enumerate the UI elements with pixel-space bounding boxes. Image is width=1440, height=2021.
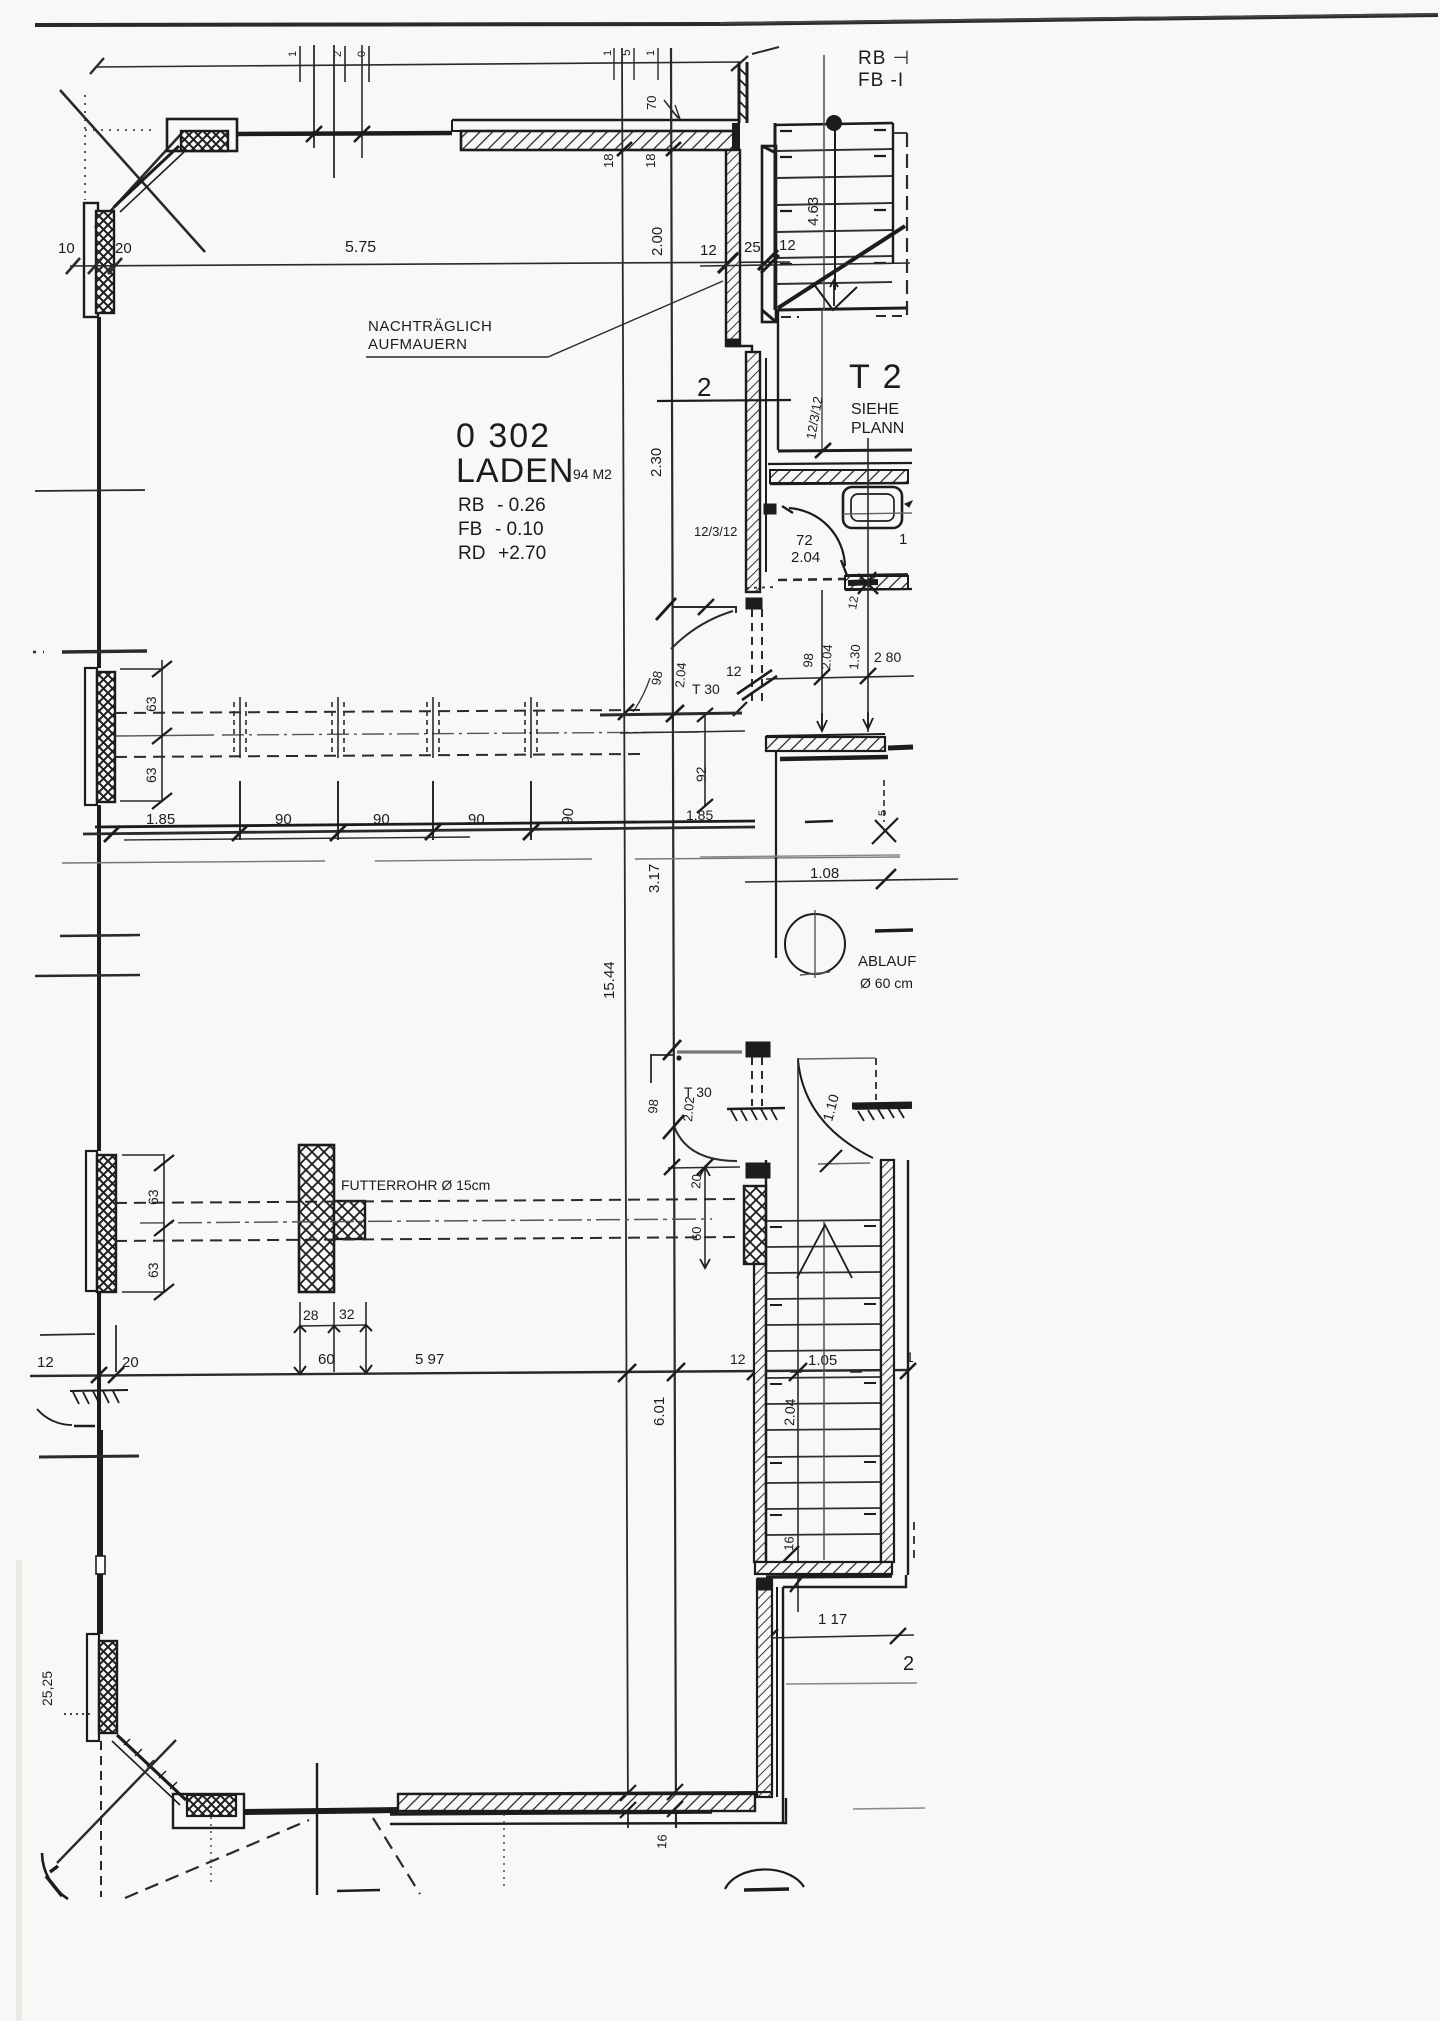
vestibule inner corner lines xyxy=(775,751,777,958)
bottom wall hatched band xyxy=(398,1792,772,1794)
svg-text:98: 98 xyxy=(800,653,816,669)
inner wall leaf upper xyxy=(762,146,776,322)
circle node at stair top xyxy=(826,115,842,131)
top page border line xyxy=(35,15,1438,25)
svg-text:AUFMAUERN: AUFMAUERN xyxy=(368,336,468,353)
long dim line x798 xyxy=(797,1058,799,1612)
dotted construction lines top-left xyxy=(84,95,86,200)
svg-text:T 2: T 2 xyxy=(849,358,904,396)
vertical tick crossing bottom wall x317 xyxy=(316,1763,318,1895)
svg-text:90: 90 xyxy=(468,811,485,828)
dim line y1662 xyxy=(766,1635,914,1638)
small leader stroke top right xyxy=(752,47,779,54)
svg-text:63: 63 xyxy=(143,767,159,783)
centre line lower stairs xyxy=(823,1220,825,1560)
stair second line from circle xyxy=(834,124,836,290)
svg-text:RB - 0.26: RB - 0.26 xyxy=(458,495,546,516)
svg-text:2.04: 2.04 xyxy=(781,1398,798,1426)
svg-text:SIEHE: SIEHE xyxy=(851,401,899,418)
long vertical dimension line A xyxy=(622,48,628,1828)
svg-text:2.30: 2.30 xyxy=(648,448,665,477)
arrow ticks on y833 xyxy=(104,824,539,842)
corridor left wall hatched xyxy=(746,352,760,592)
svg-text:1.05: 1.05 xyxy=(808,1352,837,1369)
window 4 left wall xyxy=(87,1634,99,1741)
arc bottom-left corner xyxy=(42,1853,68,1899)
tick at x626 on dashed sill line xyxy=(618,704,634,720)
svg-text:12: 12 xyxy=(779,237,796,254)
ground hatch below left wall xyxy=(70,1390,128,1391)
ticks across left wall y935 y975 xyxy=(60,935,140,936)
projection lines from top windows xyxy=(314,45,334,178)
centre line through landing xyxy=(821,310,823,452)
dashed door opening below bathroom wall xyxy=(752,609,762,704)
left wall segment 1 xyxy=(97,317,101,668)
upper stair treads xyxy=(776,149,892,284)
right outer wall hatched leaf upper xyxy=(726,150,740,346)
vertical dim line x868 xyxy=(867,438,869,732)
T2 wall double lines xyxy=(778,450,912,451)
svg-text:NACHTRÄGLICH: NACHTRÄGLICH xyxy=(368,318,492,335)
svg-text:Ø 60 cm: Ø 60 cm xyxy=(860,975,913,991)
lower stair right wall hatched xyxy=(881,1160,894,1562)
svg-text:FB -I: FB -I xyxy=(858,70,904,91)
svg-text:60: 60 xyxy=(318,1351,335,1368)
svg-text:60: 60 xyxy=(689,1227,704,1241)
X ticks where long dim lines cross y1374 xyxy=(618,1363,685,1382)
small arc door left xyxy=(37,1409,72,1425)
svg-text:18: 18 xyxy=(601,154,616,168)
tick arrows where dim lines cross top wall xyxy=(617,142,681,156)
corridor left wall inner line below jog xyxy=(765,462,767,572)
svg-text:12: 12 xyxy=(730,1351,746,1367)
svg-text:3.17: 3.17 xyxy=(646,864,663,893)
svg-text:1: 1 xyxy=(899,531,907,548)
arrow ticks on it xyxy=(91,1367,124,1383)
T30 lower door arc xyxy=(674,1126,737,1161)
tread end dashes xyxy=(780,130,886,264)
stair direction V arrow xyxy=(813,283,857,310)
svg-text:5: 5 xyxy=(619,49,633,56)
svg-text:12: 12 xyxy=(700,242,717,259)
svg-text:5 97: 5 97 xyxy=(415,1351,444,1368)
centre dashed lines through futterrohr xyxy=(115,1199,740,1203)
bathroom door swing arc 72 xyxy=(789,508,845,566)
long vertical dimension line B xyxy=(671,48,676,1828)
dashes below stair bottom xyxy=(781,316,908,317)
dims 28 32 60 under futterrohr xyxy=(300,1302,366,1372)
dashed sill line y712 xyxy=(115,710,645,713)
top wall hatched band xyxy=(461,131,736,150)
window 2 left wall xyxy=(85,668,97,805)
svg-text:0 302: 0 302 xyxy=(456,417,551,455)
stair centre line xyxy=(823,55,825,310)
break marks on opening xyxy=(737,670,777,700)
dashed vertical above wall piece xyxy=(875,1058,877,1100)
wall stub above top wall at x740 xyxy=(739,62,747,123)
bathroom top wall hatched band xyxy=(770,470,908,483)
angled corner wall bottom-left xyxy=(117,1735,186,1800)
outer boundary bottom right xyxy=(782,1587,784,1822)
crosshatch pier xyxy=(744,1186,766,1264)
svg-text:5.75: 5.75 xyxy=(345,239,376,256)
garage door arc 1.10 xyxy=(798,1060,873,1158)
FUTTERROHR column xyxy=(299,1145,334,1292)
top-left window block horizontal xyxy=(167,119,237,151)
thin grey reference line y860 xyxy=(62,861,325,863)
svg-text:70: 70 xyxy=(644,96,659,110)
bracket for lower T30 xyxy=(651,1054,674,1056)
svg-text:12: 12 xyxy=(726,663,742,679)
X tick at 866 580 xyxy=(858,572,878,594)
grey line y1163 xyxy=(818,1163,870,1164)
svg-text:1 17: 1 17 xyxy=(818,1611,847,1628)
angled corner wall top-left xyxy=(114,146,179,207)
tick across left wall y490 xyxy=(35,490,145,491)
svg-text:28: 28 xyxy=(303,1307,319,1323)
svg-text:16: 16 xyxy=(654,1834,670,1849)
left wall segment 2 xyxy=(97,805,101,1151)
svg-text:2.02: 2.02 xyxy=(680,1096,697,1123)
svg-text:2.04: 2.04 xyxy=(672,662,689,689)
dimension line y677 xyxy=(766,676,914,679)
svg-text:15.44: 15.44 xyxy=(601,961,618,999)
svg-text:5: 5 xyxy=(877,810,889,816)
svg-text:2 80: 2 80 xyxy=(874,649,901,665)
top dimension line xyxy=(95,62,740,67)
svg-text:1: 1 xyxy=(287,51,299,57)
svg-text:PLANN: PLANN xyxy=(851,420,904,437)
tick across wall y1456 xyxy=(39,1456,139,1457)
lower stair treads xyxy=(767,1220,880,1535)
ground hatch below T30 lower xyxy=(727,1108,785,1109)
svg-text:FB - 0.10: FB - 0.10 xyxy=(458,519,544,540)
svg-text:72: 72 xyxy=(796,532,813,549)
upper stair right outer dashed edge xyxy=(906,133,908,319)
bathroom lower wall hatched band xyxy=(766,734,885,736)
svg-text:20: 20 xyxy=(688,1174,704,1190)
svg-text:2: 2 xyxy=(697,372,711,402)
dimension line 5.75 xyxy=(70,262,790,266)
dark sill line between window and hatch band xyxy=(244,1810,398,1812)
bottom landing step lines xyxy=(783,1575,906,1587)
svg-text:98: 98 xyxy=(645,1099,661,1115)
svg-text:2.04: 2.04 xyxy=(791,549,820,566)
svg-text:4.63: 4.63 xyxy=(805,197,822,226)
small arrow right of basin xyxy=(905,501,912,507)
dash-dot centre line y735 xyxy=(116,735,214,736)
upper stair left edge xyxy=(774,123,777,310)
bottom window block xyxy=(173,1794,244,1828)
left dim 63 top window2 xyxy=(161,660,163,802)
X ticks at bottom of long dim lines xyxy=(620,1783,685,1800)
upper stair bottom edge xyxy=(776,308,908,310)
room dash mark xyxy=(805,821,833,822)
svg-text:1: 1 xyxy=(645,50,657,56)
dim 16 arrows at bottom wall xyxy=(620,1784,683,1818)
corridor inner face line xyxy=(765,358,767,462)
lower door jamb cap 2 xyxy=(746,1163,770,1178)
ablauf circle xyxy=(785,914,845,974)
construction X bottom-left xyxy=(57,1740,176,1863)
svg-text:10: 10 xyxy=(58,240,75,257)
X ticks on x798 line xyxy=(781,1363,807,1592)
svg-text:FUTTERROHR Ø 15cm: FUTTERROHR Ø 15cm xyxy=(341,1177,490,1193)
short wall stub right of circle xyxy=(875,930,913,931)
dim line y880 xyxy=(745,879,958,882)
right wall going down to bottom corner xyxy=(757,1580,772,1797)
dashed outer segment xyxy=(913,1522,915,1560)
construction X top-left corner xyxy=(60,90,205,252)
tick across left wall y651 xyxy=(62,651,147,652)
landing right line xyxy=(777,311,779,450)
right outer wall lines xyxy=(907,1160,909,1575)
svg-text:1: 1 xyxy=(602,50,614,56)
projection ticks down to dim line y833 xyxy=(240,781,531,840)
upper stair right inner edge xyxy=(892,123,894,264)
svg-text:12: 12 xyxy=(845,595,861,611)
corridor wall jog below x726 wall xyxy=(726,346,752,352)
svg-text:12/3/12: 12/3/12 xyxy=(694,524,737,539)
svg-text:T 30: T 30 xyxy=(692,681,720,697)
dims 20 and 60 near pier xyxy=(668,1167,740,1168)
arrow ticks on wall dim line xyxy=(718,250,778,273)
svg-text:63: 63 xyxy=(145,1262,161,1278)
svg-text:94 M2: 94 M2 xyxy=(573,466,612,482)
svg-text:20: 20 xyxy=(122,1354,139,1371)
svg-text:98: 98 xyxy=(648,670,665,687)
long dimension line y1374 xyxy=(30,1370,910,1376)
window mullion marks xyxy=(234,697,537,758)
svg-text:25: 25 xyxy=(744,239,761,256)
tick marks on top dimension line xyxy=(300,46,369,82)
main dimension line y833 xyxy=(83,827,755,834)
wash basin xyxy=(843,487,902,528)
dotted tick bottom left xyxy=(64,1713,90,1715)
grey dashed line y858 right part xyxy=(700,855,900,857)
svg-text:25,25: 25,25 xyxy=(39,1671,55,1706)
stair bottom hatched band xyxy=(755,1562,892,1574)
svg-text:16: 16 xyxy=(781,1536,797,1551)
dashed opening line y579 xyxy=(778,579,845,580)
left dim 63 window3 xyxy=(163,1154,165,1292)
bottom door arc right xyxy=(725,1869,804,1889)
dashed vertical below window4 xyxy=(100,1741,102,1897)
svg-text:63: 63 xyxy=(145,1189,161,1205)
leader line from text to wall xyxy=(366,281,723,357)
left wall lower dark segment xyxy=(97,1430,103,1556)
hatched wall right of bath door xyxy=(845,574,908,575)
svg-text:32: 32 xyxy=(339,1306,355,1322)
top wall line to hatched band xyxy=(237,133,452,134)
svg-text:1.08: 1.08 xyxy=(810,865,839,882)
vertical dim line x822 lower xyxy=(821,590,823,726)
svg-text:12: 12 xyxy=(37,1354,54,1371)
long horizontal line y825 (laden lower boundary) xyxy=(95,821,755,827)
bottom-right outer corner xyxy=(390,1798,786,1824)
svg-text:18: 18 xyxy=(643,154,658,168)
lower stair left wall hatched xyxy=(754,1264,766,1562)
grey line through basin xyxy=(843,513,912,514)
upper stair top edge xyxy=(774,123,893,125)
arrows pointing at wall from dim lines xyxy=(817,713,827,731)
svg-text:6.01: 6.01 xyxy=(651,1397,668,1426)
svg-text:92: 92 xyxy=(693,766,709,782)
bathroom door jamb caps xyxy=(764,504,776,514)
T30 label (upper door) xyxy=(672,607,736,613)
upper T30 door arc xyxy=(671,611,733,649)
T30 lower door: wall caps and dashes xyxy=(746,1042,770,1057)
svg-text:RB ⊣: RB ⊣ xyxy=(858,48,910,69)
V arrow lower stairs xyxy=(797,1225,852,1278)
window 3 left wall xyxy=(86,1151,97,1291)
lower stairwell edges xyxy=(765,1160,767,1562)
top wall white band xyxy=(452,119,740,121)
faint lines bottom right xyxy=(786,1683,917,1684)
small dim arrow x884 xyxy=(883,780,885,822)
right wall piece above lower stairs xyxy=(852,1105,912,1106)
thick dim line y714 left of corridor xyxy=(600,713,742,715)
short line below xyxy=(337,1890,380,1891)
svg-text:1.30: 1.30 xyxy=(846,644,863,671)
svg-text:2.00: 2.00 xyxy=(649,227,666,256)
svg-text:ABLAUF: ABLAUF xyxy=(858,953,916,970)
dim line across stairs y264 xyxy=(700,263,910,266)
left wall segment 3 xyxy=(97,1292,101,1430)
stair direction diagonal xyxy=(778,226,905,308)
dashed sill line y756 xyxy=(115,754,640,757)
ticks 1 5 1 near x 620-660 xyxy=(614,48,658,80)
dotted verticals below bottom wall xyxy=(210,1817,212,1884)
dashed door diagonals bottom xyxy=(125,1820,309,1898)
svg-text:2: 2 xyxy=(903,1653,914,1675)
corner window vertical top-left xyxy=(84,203,98,317)
svg-text:63: 63 xyxy=(143,696,159,712)
svg-text:20: 20 xyxy=(115,240,132,257)
tread end dashes lower xyxy=(770,1226,876,1515)
svg-text:LADEN: LADEN xyxy=(456,452,574,490)
svg-text:2.04: 2.04 xyxy=(818,644,835,671)
svg-text:RD +2.70: RD +2.70 xyxy=(458,543,546,564)
